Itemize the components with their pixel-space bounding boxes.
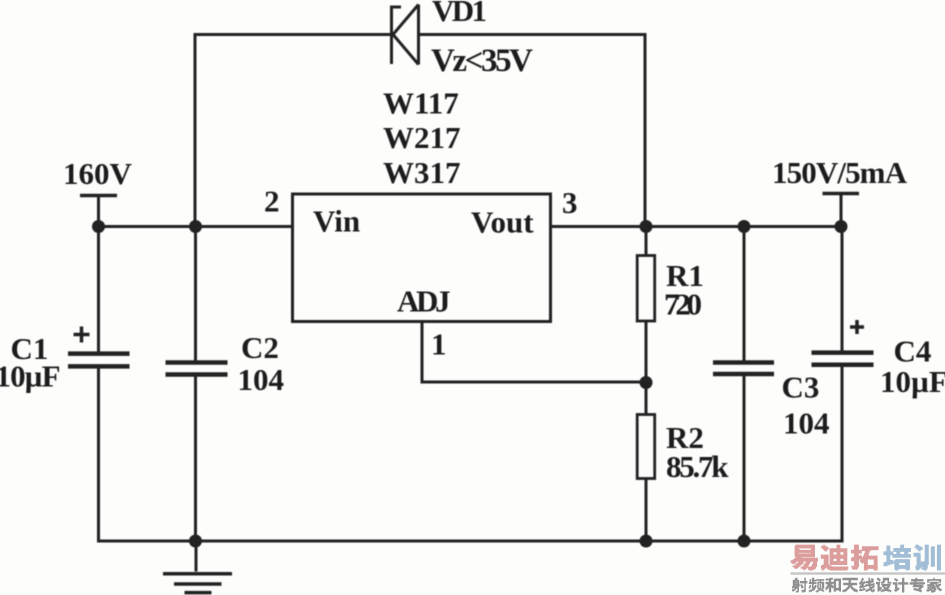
svg-text:Vin: Vin [313, 204, 360, 239]
svg-text:C3: C3 [782, 370, 820, 405]
svg-text:720: 720 [664, 287, 702, 322]
svg-text:3: 3 [562, 185, 578, 220]
svg-text:104: 104 [238, 362, 285, 397]
svg-text:150V/5mA: 150V/5mA [772, 155, 908, 190]
svg-text:85.7k: 85.7k [666, 449, 729, 484]
svg-text:ADJ: ADJ [397, 284, 451, 319]
svg-text:C2: C2 [241, 330, 279, 365]
svg-text:W117: W117 [383, 86, 459, 121]
svg-text:160V: 160V [63, 156, 133, 191]
svg-text:Vz<35V: Vz<35V [431, 43, 533, 79]
svg-text:10µF: 10µF [0, 359, 61, 394]
svg-text:10µF: 10µF [880, 364, 945, 399]
svg-text:W317: W317 [383, 155, 461, 190]
svg-text:W217: W217 [383, 120, 461, 155]
svg-text:1: 1 [431, 327, 447, 362]
svg-text:Vout: Vout [471, 205, 534, 240]
svg-text:2: 2 [264, 184, 280, 219]
svg-text:VD1: VD1 [432, 0, 487, 28]
svg-text:104: 104 [783, 406, 830, 441]
